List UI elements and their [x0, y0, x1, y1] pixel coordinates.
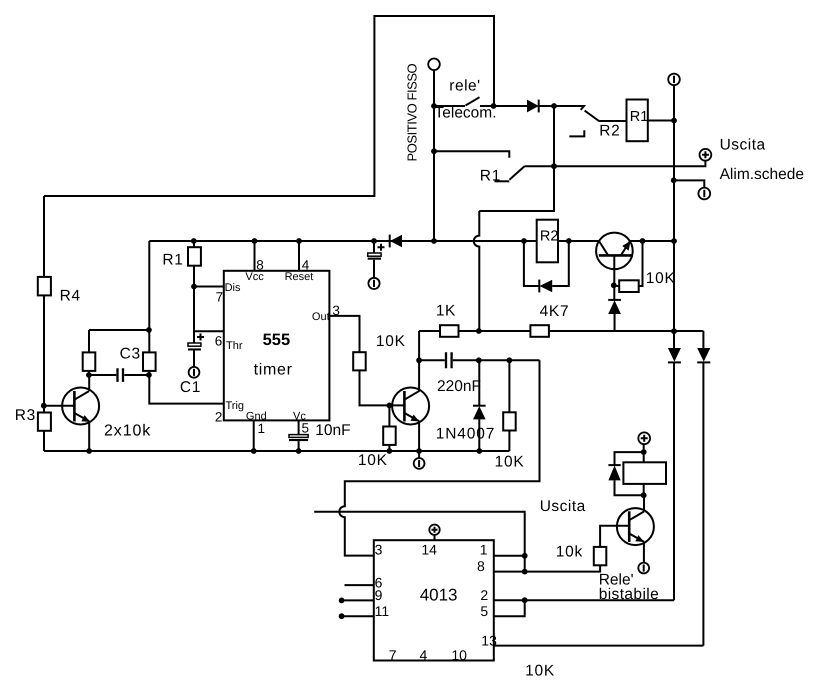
junction pin2 [522, 597, 528, 603]
wire top loop positive rail [44, 16, 494, 196]
terminal alim [698, 188, 710, 200]
junction pin9 end [339, 598, 345, 604]
wire uscita output [525, 161, 706, 167]
diode D3 up-pointing [613, 285, 615, 300]
svg-text:C1: C1 [180, 379, 201, 396]
junction 10K rail [640, 238, 646, 244]
wire 1K 4K7 line y331 [419, 330, 703, 332]
svg-text:timer: timer [254, 361, 293, 378]
switch rele' blade [466, 97, 480, 105]
svg-text:10: 10 [451, 647, 467, 663]
resistor 1K [440, 325, 459, 337]
wire rail left branch down [149, 241, 224, 404]
terminal open pin top [428, 59, 440, 71]
svg-text:10nF: 10nF [315, 422, 350, 439]
terminal Q2 emitter [414, 458, 425, 469]
junction rail telecom vertical [431, 238, 437, 244]
svg-text:R4: R4 [60, 288, 81, 305]
junction rail reset [296, 238, 302, 244]
svg-text:Reset: Reset [285, 271, 314, 283]
svg-text:R2: R2 [540, 229, 559, 245]
diode B down-pointing x703 [702, 331, 704, 348]
junction Q2 base tap [387, 403, 393, 409]
svg-text:8: 8 [256, 257, 264, 272]
junction Q3 base [611, 282, 617, 288]
junction 1N4007 bottom [476, 448, 482, 454]
wire alim stub [674, 180, 705, 187]
pin 8 Vcc wire [254, 241, 256, 271]
capacitor C2 electrolytic [373, 241, 375, 253]
svg-text:POSITIVO FISSO: POSITIVO FISSO [405, 63, 420, 161]
junction base [41, 403, 47, 409]
junction rail vc [296, 448, 302, 454]
svg-text:5: 5 [480, 603, 488, 619]
svg-text:Dis: Dis [225, 282, 241, 294]
resistor 10k Q4 base [594, 547, 607, 565]
svg-text:7: 7 [216, 290, 224, 305]
emitter Q2 wire [418, 421, 420, 458]
junction 10K bottom [387, 448, 393, 454]
pin 11 stub [341, 615, 374, 617]
svg-text:Vcc: Vcc [245, 271, 264, 283]
wire out 555 net [329, 316, 404, 406]
svg-text:1K: 1K [436, 302, 456, 319]
svg-text:3: 3 [332, 303, 340, 318]
svg-text:10K: 10K [495, 454, 525, 471]
diode D1 right-pointing [527, 100, 539, 113]
junction coil left [521, 238, 527, 244]
svg-text:Out: Out [312, 311, 330, 323]
svg-text:4013: 4013 [420, 585, 458, 604]
resistor R4 [43, 196, 45, 277]
svg-text:R1: R1 [162, 252, 183, 269]
junction pin11 end [339, 613, 345, 619]
pin 9 stub [341, 599, 374, 601]
base Q3 [613, 255, 615, 285]
svg-text:Trig: Trig [226, 400, 245, 412]
junction rail cap [371, 238, 377, 244]
svg-text:R1: R1 [480, 167, 501, 184]
pin 4 Reset wire [298, 241, 300, 271]
svg-text:2: 2 [215, 409, 223, 424]
resistor 10K Q2 base [388, 405, 390, 451]
junction alim [671, 177, 677, 183]
junction dis [191, 284, 197, 290]
junction coil right [566, 238, 572, 244]
switch rele' contact [480, 105, 494, 107]
wire dis stub [194, 286, 224, 288]
junction 1K right [476, 328, 482, 334]
svg-text:Telecom.: Telecom. [435, 105, 497, 122]
terminal plus uscita [700, 149, 712, 161]
transistor Q2 [392, 388, 429, 425]
junction pin8 [522, 569, 528, 575]
junction rail q1 emitter [86, 448, 92, 454]
junction rail R1r [191, 238, 197, 244]
junction Q2 emitter [416, 448, 422, 454]
wire 220nF right to 4013 pin3 [339, 360, 539, 555]
diode D5 left-pointing on rail [389, 235, 391, 248]
switch R2 contact mark [569, 130, 584, 136]
capacitor C1 electrolytic [188, 343, 201, 346]
svg-text:1: 1 [258, 421, 266, 436]
svg-text:14: 14 [421, 541, 437, 557]
junction relay top [641, 449, 647, 455]
terminal C1 [189, 367, 200, 378]
wire terminal to switch [433, 70, 435, 106]
svg-text:1: 1 [480, 541, 488, 557]
resistor R1 555 net [193, 241, 195, 343]
junction node R2 pole [551, 103, 557, 109]
wire telecom vertical [433, 106, 435, 241]
svg-text:C3: C3 [120, 345, 141, 362]
svg-text:Thr: Thr [226, 340, 243, 352]
switch R1 pole stub [495, 180, 510, 182]
wire uscita out stub [314, 512, 525, 556]
resistor 2x10k right [143, 352, 156, 371]
flyback diode loop relay [615, 452, 644, 495]
svg-text:Uscita: Uscita [540, 498, 586, 515]
resistor R3 [38, 413, 51, 431]
resistor 10K base Q3 [614, 241, 643, 286]
wire y330 [89, 329, 149, 331]
transistor Q4 [617, 508, 654, 545]
pin 8 wire [494, 565, 600, 571]
terminal top right [668, 74, 680, 86]
junction y331 x674 [671, 328, 677, 334]
wire R1 coil to vertical [648, 120, 674, 122]
relay bistabile coil box [643, 444, 645, 495]
svg-text:R2: R2 [599, 122, 620, 139]
diode 1N4007 up-pointing [478, 360, 480, 406]
svg-text:R1: R1 [630, 109, 649, 125]
svg-text:1N4007: 1N4007 [436, 425, 495, 442]
pin 1 Gnd wire [253, 420, 255, 451]
relay coil R2 box [537, 220, 558, 263]
terminal plus relay [638, 432, 650, 444]
junction telecom contact [491, 103, 497, 109]
wire right vertical [673, 85, 675, 331]
svg-text:4K7: 4K7 [540, 303, 570, 320]
pin 5 Vc wire + capacitor 10nF [298, 420, 300, 434]
junction cap left [86, 372, 92, 378]
terminal C2 [368, 278, 379, 289]
svg-text:10K: 10K [358, 452, 388, 469]
svg-text:10k: 10k [556, 544, 583, 561]
junction rail gnd [251, 448, 257, 454]
svg-text:6: 6 [215, 334, 223, 349]
diode D6 left-pointing [538, 280, 540, 293]
resistor 2x10k left [88, 330, 90, 375]
resistor 10K right [508, 360, 510, 451]
terminal plus pin14 [429, 525, 439, 535]
junction 220nF d1n [476, 357, 482, 363]
junction 220nF left [416, 357, 422, 363]
svg-text:5: 5 [302, 421, 310, 436]
pin 13 wire [494, 645, 704, 647]
transistor Q3 [596, 233, 633, 270]
svg-text:220nF: 220nF [437, 378, 481, 395]
wire thr stub [194, 330, 224, 332]
transistor Q1 [44, 405, 75, 407]
wire 220nF line [419, 359, 539, 361]
pin 14 wire [434, 535, 436, 541]
svg-text:rele': rele' [449, 77, 480, 94]
riser pin1 pin8 [524, 556, 526, 572]
capacitor 220nF plates [446, 352, 452, 368]
resistor 4K7 [530, 325, 549, 337]
svg-text:10K: 10K [376, 333, 406, 350]
relay coil R2 flyback loop [524, 241, 569, 286]
pin 6 stub [345, 584, 374, 586]
svg-text:11: 11 [375, 603, 390, 619]
svg-text:2x10k: 2x10k [104, 423, 151, 440]
svg-text:10K: 10K [525, 662, 555, 679]
wire bottom rail [44, 450, 509, 452]
svg-text:R3: R3 [15, 407, 36, 424]
svg-text:8: 8 [477, 558, 485, 574]
junction relay bottom [641, 492, 647, 498]
wire node down to corner [479, 106, 554, 211]
switch R1 blade [509, 166, 524, 180]
svg-text:3: 3 [375, 542, 383, 558]
switch R1 contact wire [434, 151, 509, 158]
IC 4013 box [374, 540, 494, 660]
svg-text:555: 555 [263, 331, 291, 349]
pin 5 wire [494, 600, 525, 616]
svg-text:9: 9 [375, 587, 383, 603]
hop vertical from R2 net [474, 211, 480, 331]
svg-text:10K: 10K [646, 270, 676, 287]
svg-text:2: 2 [480, 587, 488, 603]
wire Q2 collector vertical [418, 331, 420, 392]
junction R1 switch [431, 148, 437, 154]
svg-text:4: 4 [420, 647, 428, 663]
diode A down-pointing x674 [673, 331, 675, 348]
svg-text:4: 4 [302, 257, 310, 272]
switch R2 blade [585, 111, 627, 121]
svg-text:7: 7 [389, 647, 397, 663]
junction 220nF 10Kr [507, 357, 513, 363]
junction pin1 [522, 553, 528, 559]
svg-text:Alim.schede: Alim.schede [720, 166, 804, 183]
capacitor C3 [89, 374, 149, 376]
pin 2 wire [494, 599, 674, 601]
junction rail vcc [252, 238, 258, 244]
relay coil R1 [627, 100, 648, 142]
switch rele' Telecom pole [434, 105, 465, 107]
IC 555 box [224, 271, 330, 421]
junction uscita [551, 163, 557, 169]
junction telecom pole [431, 103, 437, 109]
resistor 10K out [353, 352, 366, 370]
wire diode to node [539, 105, 554, 107]
pin 1 wire [494, 555, 525, 557]
junction cap right [146, 372, 152, 378]
terminal Q4 emitter [638, 563, 649, 574]
wire main rail y241 [149, 240, 674, 242]
svg-text:Uscita: Uscita [720, 137, 766, 154]
junction left branch y330 [146, 327, 152, 333]
switch R2 pole [554, 106, 584, 110]
wire telecom to diode [494, 105, 528, 107]
junction rail end [671, 238, 677, 244]
junction R1 coil [671, 118, 677, 124]
